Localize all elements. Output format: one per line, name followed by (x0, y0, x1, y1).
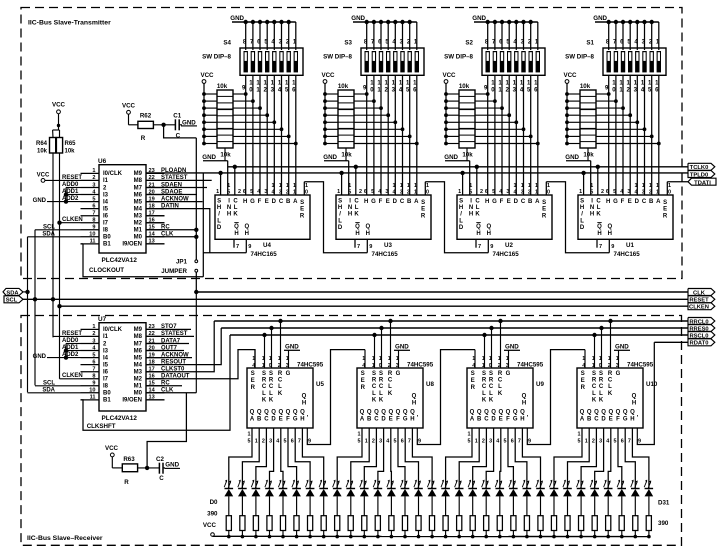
svg-text:D: D (635, 199, 640, 205)
svg-text:R62: R62 (140, 113, 152, 120)
U6 right pin stubs (146, 172, 165, 174)
wire D0 to resistor (228, 496, 230, 516)
wire D20 to resistor (499, 496, 501, 516)
svg-text:3: 3 (396, 363, 399, 369)
wire U6 pin16 stub (146, 222, 165, 224)
svg-text:B: B (257, 417, 262, 423)
svg-text:VCC: VCC (122, 103, 136, 110)
svg-text:H: H (522, 401, 526, 407)
tag RRCL0 (688, 318, 715, 325)
U2 pin9 QH stub (487, 239, 489, 252)
LED D19 (482, 488, 491, 490)
LED D15 (428, 488, 437, 490)
junction S4 gnd col4 (265, 20, 269, 24)
junction S1 gnd col4 (628, 20, 632, 24)
svg-text:5: 5 (250, 189, 253, 195)
svg-text:B: B (367, 417, 372, 423)
svg-text:2: 2 (601, 189, 604, 195)
svg-text:11: 11 (90, 239, 96, 245)
svg-text:3: 3 (599, 439, 602, 445)
junction PLOADN at 165 #3 (581, 171, 585, 175)
svg-text:L: L (459, 218, 463, 224)
svg-text:Q: Q (594, 410, 599, 416)
svg-text:1: 1 (372, 363, 375, 369)
svg-text:E: E (609, 417, 613, 423)
wire resistor 11 to rail (377, 531, 379, 537)
svg-text:L: L (338, 218, 342, 224)
svg-text:G: G (492, 199, 497, 205)
wire resistor 30 to rail (634, 531, 636, 537)
svg-text:GND: GND (593, 15, 607, 22)
svg-text:U5: U5 (316, 381, 324, 388)
svg-text:Q: Q (234, 224, 239, 230)
svg-text:N: N (227, 205, 231, 211)
U2 SER stub (545, 182, 547, 195)
tag TCLK0 (688, 163, 715, 170)
svg-text:S: S (471, 371, 475, 377)
svg-text:5: 5 (613, 189, 616, 195)
wire chain from previous QH to U9 SER (417, 350, 475, 445)
U9 output wires to LEDs (446, 428, 472, 489)
svg-text:L: L (489, 391, 493, 397)
svg-text:G: G (286, 371, 291, 377)
svg-text:H: H (364, 199, 368, 205)
U5 control pin risers (264, 335, 266, 368)
svg-text:Q: Q (293, 410, 298, 416)
svg-text:H: H (234, 231, 238, 237)
svg-text:5: 5 (284, 439, 287, 445)
svg-text:0: 0 (599, 363, 602, 369)
svg-text:9: 9 (369, 244, 372, 250)
svg-text:CLKSHFT: CLKSHFT (87, 423, 116, 430)
wire gnd to INH S3 (348, 161, 350, 195)
junction S4 gnd col7 (287, 20, 291, 24)
svg-text:M0: M0 (134, 391, 143, 397)
svg-text:7: 7 (478, 244, 481, 250)
wire resistor 28 to rail (607, 531, 609, 537)
svg-text:K: K (608, 391, 613, 397)
svg-text:SCL: SCL (6, 298, 18, 304)
svg-text:9: 9 (638, 439, 641, 445)
svg-text:VCC: VCC (321, 72, 335, 79)
svg-text:1: 1 (293, 183, 296, 189)
svg-text:7: 7 (357, 244, 360, 250)
svg-text:9: 9 (528, 439, 531, 445)
resistor 390 #4 (280, 516, 285, 531)
svg-text:I8: I8 (103, 384, 109, 390)
svg-text:R: R (663, 213, 668, 219)
svg-text:3: 3 (92, 182, 95, 188)
svg-text:7: 7 (298, 439, 301, 445)
shift register U5 74HC595 box (247, 368, 313, 428)
svg-text:L: L (372, 391, 376, 397)
svg-text:K: K (278, 391, 283, 397)
svg-text:Q: Q (365, 224, 370, 230)
svg-text:R: R (141, 135, 146, 142)
svg-text:9: 9 (308, 439, 311, 445)
LED D2 (252, 488, 261, 490)
wire R63 to C2 (138, 467, 160, 469)
svg-text:C: C (642, 199, 647, 205)
wire resistor 9 to rail (350, 531, 352, 537)
svg-text:M3: M3 (134, 370, 143, 376)
svg-text:C: C (262, 384, 267, 390)
svg-text:1: 1 (337, 189, 340, 195)
junction S4 gnd col5 (272, 20, 276, 24)
svg-text:B0: B0 (103, 235, 111, 241)
svg-text:G: G (613, 199, 618, 205)
U4 SER stub (303, 182, 305, 195)
svg-text:U4: U4 (263, 242, 271, 249)
svg-text:1: 1 (293, 190, 296, 196)
svg-text:K: K (498, 391, 503, 397)
svg-text:C: C (592, 384, 597, 390)
resistor 390 #5 (294, 516, 299, 531)
svg-text:1: 1 (579, 189, 582, 195)
wire U7 SCL (35, 385, 81, 387)
svg-text:R: R (421, 213, 426, 219)
svg-text:10k: 10k (459, 83, 470, 90)
wire resistor 3 to rail (269, 531, 271, 537)
svg-text:7: 7 (92, 367, 95, 373)
junction S3 gnd col7 (408, 20, 412, 24)
svg-text:E: E (265, 199, 269, 205)
svg-text:1: 1 (514, 183, 517, 189)
wire U7 CLKST0 to RRCL0 (146, 321, 214, 372)
svg-text:2: 2 (608, 363, 611, 369)
U2 top pin stubs (462, 173, 464, 195)
svg-text:3: 3 (279, 190, 282, 196)
wire D9 to resistor (350, 496, 352, 516)
svg-text:E: E (421, 207, 425, 213)
LED D30 (631, 488, 640, 490)
svg-text:5: 5 (504, 439, 507, 445)
svg-text:R63: R63 (123, 456, 135, 463)
svg-text:1: 1 (393, 183, 396, 189)
wire gnd to INH S2 (469, 161, 471, 195)
svg-text:L: L (278, 384, 282, 390)
wire U6 SDA (28, 236, 81, 238)
svg-text:M8: M8 (134, 178, 143, 184)
svg-text:A: A (250, 417, 255, 423)
wire D19 to resistor (485, 496, 487, 516)
wire SDA vertical (27, 237, 29, 393)
wire R62 to C1 (153, 124, 175, 126)
svg-text:6: 6 (92, 359, 95, 365)
wire VCC to pack S2 (445, 83, 447, 143)
svg-text:H: H (580, 205, 584, 211)
svg-text:D: D (601, 417, 606, 423)
svg-text:4: 4 (499, 189, 502, 195)
wire U7 DATAOUT to U5 SER (146, 350, 255, 379)
wire jumper to RC net (195, 138, 197, 260)
svg-text:Q: Q (410, 410, 415, 416)
receiver enclosure dashed border (21, 316, 682, 546)
wire U7 CLKEN (59, 306, 61, 379)
svg-text:1: 1 (592, 363, 595, 369)
svg-text:C: C (484, 417, 489, 423)
svg-text:10k: 10k (580, 83, 591, 90)
svg-text:I1: I1 (103, 178, 109, 184)
svg-text:N: N (469, 205, 473, 211)
LED D27 (590, 488, 599, 490)
svg-text:74HC165: 74HC165 (372, 251, 399, 258)
svg-text:A: A (293, 199, 298, 205)
junction S2 gnd col1 (486, 20, 490, 24)
svg-text:K: K (262, 397, 267, 403)
svg-text:L: L (580, 218, 584, 224)
wire resistor 18 to rail (472, 531, 474, 537)
wire U7 CLKSHFT loop to RSCL0 (81, 335, 231, 430)
LED D16 (441, 488, 450, 490)
svg-text:I5: I5 (103, 206, 109, 212)
svg-text:2: 2 (286, 190, 289, 196)
wire resistor 17 to rail (458, 531, 460, 537)
LED D18 (468, 488, 477, 490)
wire U7 STATEST stub (146, 335, 194, 337)
svg-text:R: R (542, 213, 547, 219)
LED D11 (374, 488, 383, 490)
svg-text:I6: I6 (103, 214, 109, 220)
wire D24 to resistor (553, 496, 555, 516)
wire VCC to pack S4 (203, 83, 205, 143)
svg-text:4: 4 (386, 439, 389, 445)
svg-text:74HC165: 74HC165 (614, 251, 641, 258)
svg-text:2: 2 (528, 190, 531, 196)
wire resistor 12 to rail (390, 531, 392, 537)
svg-text:B: B (477, 417, 482, 423)
pack S2 right cascade (475, 93, 488, 95)
svg-text:1: 1 (216, 189, 219, 195)
svg-text:H: H (355, 231, 359, 237)
svg-text:F: F (506, 417, 510, 423)
wires S3 columns to switch (366, 22, 368, 50)
svg-text:ADD0: ADD0 (62, 182, 79, 188)
svg-text:A: A (414, 199, 419, 205)
svg-text:U10: U10 (646, 381, 658, 388)
U3 top pin stubs (341, 173, 343, 195)
svg-text:1: 1 (305, 183, 308, 189)
svg-text:5: 5 (590, 190, 593, 196)
svg-text:SDA: SDA (42, 231, 55, 237)
wire resistor 24 to rail (553, 531, 555, 537)
wire U6 CLKEN (60, 222, 81, 224)
wire CLK long line (196, 291, 688, 293)
svg-text:K: K (388, 391, 393, 397)
pack S4 right cascade (233, 93, 246, 95)
svg-text:H: H (217, 205, 221, 211)
resistor 390 #16 (443, 516, 448, 531)
svg-text:VCC: VCC (442, 72, 456, 79)
svg-text:C: C (372, 384, 377, 390)
svg-text:A: A (360, 417, 365, 423)
svg-text:L: L (379, 391, 383, 397)
svg-text:L: L (234, 205, 238, 211)
svg-text:1: 1 (475, 439, 478, 445)
resistor 390 #0 (226, 516, 231, 531)
wires S2 switch to 165 inputs (487, 75, 489, 195)
U9 control pin risers (484, 335, 486, 368)
shift register U4 74HC165 box (215, 195, 310, 239)
junction CLK at 165 #0 (233, 165, 237, 169)
wire U6 SDAOE stub (146, 194, 197, 196)
svg-text:S: S (592, 371, 596, 377)
wire D12 to resistor (390, 496, 392, 516)
svg-text:U1: U1 (626, 242, 634, 249)
svg-text:Q: Q (601, 410, 606, 416)
svg-text:D: D (580, 225, 585, 231)
svg-text:1: 1 (286, 183, 289, 189)
svg-text:Q: Q (396, 410, 401, 416)
tag TPLD0 (688, 171, 715, 178)
svg-text:GND: GND (351, 15, 365, 22)
svg-text:TDATI: TDATI (694, 181, 711, 187)
tag RESET (688, 296, 715, 303)
svg-text:S2: S2 (465, 40, 473, 47)
wire TDATI to U1 SER (667, 181, 688, 183)
svg-text:6: 6 (92, 203, 95, 209)
resistor 390 #31 (646, 516, 651, 531)
svg-text:I9/OEN: I9/OEN (122, 242, 142, 248)
svg-text:4: 4 (620, 189, 623, 195)
wire resistor 25 to rail (567, 531, 569, 537)
svg-text:E: E (300, 207, 304, 213)
svg-text:1: 1 (616, 356, 619, 362)
svg-text:R: R (124, 479, 129, 486)
svg-text:E: E (542, 207, 546, 213)
svg-text:1: 1 (535, 190, 538, 196)
svg-text:1: 1 (635, 183, 638, 189)
svg-text:GND: GND (230, 15, 244, 22)
U5 SER riser (254, 350, 256, 368)
svg-text:F: F (616, 417, 620, 423)
svg-text:10k: 10k (217, 83, 228, 90)
svg-text:R: R (300, 213, 305, 219)
wire resistor 16 to rail (445, 531, 447, 537)
wire U7 RESOUT to RRES0 (146, 328, 221, 365)
svg-text:5: 5 (614, 439, 617, 445)
pack S2 left stubs (446, 93, 459, 95)
svg-text:0: 0 (547, 190, 550, 196)
svg-text:R: R (608, 371, 613, 377)
resistor 390 #8 (335, 516, 340, 531)
svg-text:5: 5 (492, 189, 495, 195)
shift register U9 74HC595 box (467, 368, 533, 428)
svg-text:1: 1 (472, 356, 475, 362)
svg-text:K: K (475, 212, 480, 218)
svg-text:10k: 10k (583, 152, 594, 159)
svg-text:RESET: RESET (62, 175, 82, 181)
svg-text:H: H (476, 231, 480, 237)
LED D17 (455, 488, 464, 490)
wire pack S3 bottom to gnd (345, 148, 347, 161)
wire U6 ACKNOW stub (146, 201, 203, 203)
svg-text:U7: U7 (98, 316, 107, 323)
svg-text:2: 2 (92, 331, 95, 337)
svg-text:H: H (487, 231, 491, 237)
svg-text:Q: Q (381, 410, 386, 416)
wire U6 RC line (146, 229, 196, 231)
svg-text:L: L (269, 391, 273, 397)
resistor 390 #27 (592, 516, 597, 531)
svg-text:2: 2 (592, 439, 595, 445)
svg-text:1: 1 (348, 183, 351, 189)
svg-text:CLKEN: CLKEN (689, 305, 709, 311)
U2 pin7 stub (475, 239, 477, 247)
svg-text:Q: Q (587, 410, 592, 416)
svg-text:S: S (459, 199, 463, 205)
svg-text:S: S (482, 371, 486, 377)
svg-text:B: B (587, 417, 592, 423)
svg-text:JP1: JP1 (176, 258, 188, 265)
svg-text:1: 1 (92, 324, 95, 330)
svg-text:4: 4 (472, 363, 475, 369)
svg-text:RDAT0: RDAT0 (690, 341, 709, 347)
svg-text:4: 4 (606, 439, 609, 445)
svg-text:K: K (372, 397, 377, 403)
LED D0 (225, 488, 234, 490)
svg-text:E: E (499, 417, 503, 423)
junction S3 gnd col2 (372, 20, 376, 24)
wire D10 to resistor (363, 496, 365, 516)
svg-text:1: 1 (262, 363, 265, 369)
resistor 390 #18 (470, 516, 475, 531)
svg-text:D: D (217, 225, 222, 231)
LED D24 (550, 488, 559, 490)
svg-text:1: 1 (668, 183, 671, 189)
wire U7 RESET from R64 vertical (53, 335, 81, 337)
resistor 390 #6 (308, 516, 313, 531)
shift register U10 74HC595 box (577, 368, 643, 428)
svg-text:I5: I5 (103, 362, 109, 368)
svg-text:IIC-Bus Slave-Transmitter: IIC-Bus Slave-Transmitter (28, 20, 111, 27)
svg-text:1: 1 (599, 356, 602, 362)
svg-text:Q: Q (250, 410, 255, 416)
svg-text:3: 3 (400, 190, 403, 196)
wire pack S4 bottom to gnd (224, 148, 226, 161)
svg-text:GND: GND (444, 154, 458, 161)
svg-text:M1: M1 (134, 228, 143, 234)
svg-text:ADD2: ADD2 (62, 196, 79, 202)
svg-text:H: H (590, 212, 594, 218)
svg-text:B: B (649, 199, 654, 205)
LED D21 (509, 488, 517, 490)
svg-text:1: 1 (400, 183, 403, 189)
wires S3 switch to 165 inputs (366, 75, 368, 195)
wire D27 to resistor (594, 496, 596, 516)
wire SCL long line (23, 298, 688, 300)
svg-text:C: C (354, 199, 359, 205)
svg-text:VCC: VCC (37, 173, 50, 179)
svg-text:S: S (251, 371, 255, 377)
svg-text:F: F (258, 199, 262, 205)
junction S2 gnd col2 (493, 20, 497, 24)
svg-text:4: 4 (378, 189, 381, 195)
svg-text:CLKEN: CLKEN (62, 373, 83, 379)
wire D4 to resistor (282, 496, 284, 516)
svg-text:VCC: VCC (203, 522, 217, 529)
svg-text:R: R (361, 385, 366, 391)
svg-text:1: 1 (272, 183, 275, 189)
svg-text:SW DIP–8: SW DIP–8 (565, 54, 594, 61)
wire D5 to resistor (296, 496, 298, 516)
resistor 390 #3 (267, 516, 272, 531)
svg-text:B: B (528, 199, 533, 205)
svg-text:E: E (471, 378, 475, 384)
svg-text:0: 0 (379, 363, 382, 369)
svg-text:S: S (489, 371, 493, 377)
svg-text:L: L (388, 384, 392, 390)
